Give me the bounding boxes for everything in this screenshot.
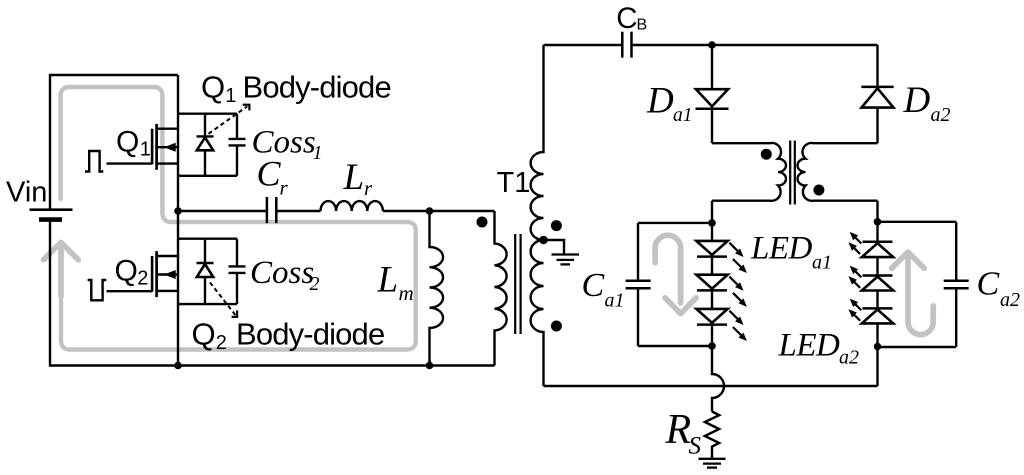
diode Da2 — [876, 45, 878, 87]
MOSFET Q1 body arrow — [164, 143, 176, 152]
svg-text:a1: a1 — [673, 105, 693, 126]
wire: secondary bottom rail — [544, 385, 878, 387]
svg-text:B: B — [637, 16, 648, 33]
svg-text:L: L — [377, 260, 399, 301]
svg-text:Q: Q — [116, 125, 139, 158]
wire: CB to right top rail — [633, 44, 878, 46]
LEDa2 emission arrows — [852, 235, 861, 320]
svg-text:D: D — [903, 80, 931, 121]
svg-text:T1: T1 — [497, 167, 531, 199]
svg-text:L: L — [343, 157, 365, 198]
ground at Rs — [699, 458, 726, 460]
LED string LEDa1 — [711, 223, 713, 241]
balance transformer right winding — [798, 143, 878, 201]
ground at T1 center tap — [544, 240, 565, 254]
battery Vin — [30, 208, 73, 211]
body diode of Q2 — [204, 239, 206, 264]
wire: switch node to Cr — [178, 210, 267, 212]
svg-text:C: C — [977, 266, 1000, 303]
inductor Lr — [321, 201, 383, 211]
transformer T1 secondary winding — [531, 45, 544, 386]
wire: Lr to transformer — [383, 210, 495, 212]
wire: left winding down to LEDa1 top node — [711, 201, 713, 223]
junction node dots — [174, 41, 881, 369]
svg-text:a1: a1 — [605, 289, 625, 311]
transformer T1 primary winding — [495, 211, 507, 366]
svg-text:Coss: Coss — [250, 255, 314, 291]
svg-text:Vin: Vin — [6, 177, 47, 209]
svg-text:a2: a2 — [1000, 289, 1020, 311]
wire: Cr to Lr — [276, 210, 320, 212]
inductor Lm — [430, 211, 444, 366]
svg-text:1: 1 — [225, 85, 236, 107]
svg-text:2: 2 — [137, 267, 148, 289]
capacitor Coss2 — [236, 239, 238, 267]
dashed arrow: Q1 body-diode callout — [209, 106, 248, 134]
svg-text:1: 1 — [140, 139, 151, 161]
svg-text:m: m — [399, 281, 414, 305]
svg-text:LED: LED — [750, 231, 813, 267]
svg-text:C: C — [257, 153, 282, 193]
capacitor Coss1 — [236, 114, 238, 139]
svg-text:Q: Q — [115, 255, 138, 288]
svg-text:C: C — [616, 2, 637, 35]
wire: half-bridge vertical rail — [177, 75, 179, 366]
capacitor Cr — [266, 197, 269, 223]
diode Da1 — [711, 45, 713, 89]
svg-text:Q: Q — [192, 317, 216, 352]
svg-text:1: 1 — [313, 142, 323, 164]
body diode of Q1 — [204, 114, 206, 137]
Q1 gate pulse symbol — [85, 151, 103, 172]
transistor Q1 (MOSFET) — [107, 162, 153, 164]
svg-text:2: 2 — [310, 273, 320, 295]
transistor Q2 (MOSFET) — [107, 290, 153, 292]
svg-text:2: 2 — [216, 332, 227, 354]
svg-text:Body-diode: Body-diode — [236, 317, 384, 352]
svg-text:r: r — [364, 176, 373, 200]
capacitor Ca2 branch — [878, 221, 957, 223]
Q2 gate pulse symbol — [88, 280, 107, 300]
gray LEDa2 current arrow — [908, 257, 933, 335]
svg-text:Q: Q — [201, 69, 225, 104]
wire: top rail — [50, 75, 178, 210]
capacitor Ca1 branch — [638, 222, 712, 224]
svg-text:D: D — [646, 81, 674, 122]
capacitor CB — [621, 32, 624, 58]
svg-text:Body-diode: Body-diode — [243, 69, 391, 104]
balance transformer left winding — [712, 143, 786, 201]
gray resonant current loop — [61, 87, 416, 350]
wire: Q1 body-diode branch — [178, 112, 237, 114]
wire: Q2 body-diode branch — [178, 237, 237, 239]
gray LEDa1 current arrow — [655, 235, 681, 303]
MOSFET Q2 body arrow — [164, 270, 176, 279]
svg-text:a2: a2 — [931, 104, 951, 126]
wire: LEDa2 bottom node down to rail — [876, 347, 878, 387]
balance transformer core — [789, 141, 791, 205]
LEDa1 emission arrows — [729, 243, 743, 338]
wire: LEDa1 bottom to Rs (with hop over rail) — [712, 346, 724, 412]
resistor Rs — [705, 412, 719, 459]
LED string LEDa2 — [876, 222, 878, 242]
polarity dots — [477, 217, 488, 228]
dashed arrow: Q2 body-diode callout — [210, 283, 236, 316]
svg-text:S: S — [689, 433, 702, 460]
wire: T1 secondary top to CB — [544, 44, 622, 46]
svg-text:a1: a1 — [812, 251, 832, 273]
svg-text:R: R — [665, 407, 692, 453]
gray loop arrow near Vin — [58, 246, 64, 296]
T1 core — [514, 234, 516, 334]
svg-text:C: C — [582, 267, 605, 304]
wire: right winding down to LEDa2 top node — [876, 201, 878, 222]
wire: left rail lower + bottom rail — [50, 220, 495, 366]
svg-text:a2: a2 — [839, 347, 859, 369]
svg-text:LED: LED — [778, 328, 841, 364]
svg-text:r: r — [280, 176, 289, 200]
